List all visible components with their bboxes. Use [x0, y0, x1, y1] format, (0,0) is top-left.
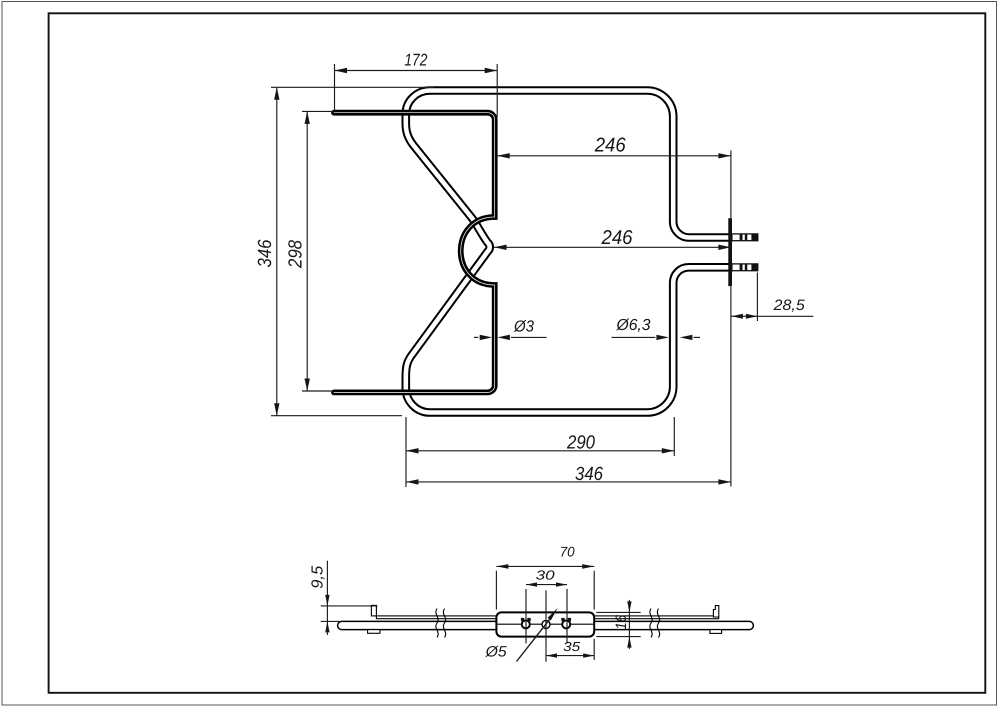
dim 16 [596, 600, 640, 649]
svg-text:346: 346 [575, 464, 603, 485]
svg-text:246: 246 [601, 227, 634, 249]
svg-text:298: 298 [286, 240, 307, 269]
label diameter 6,3 [612, 317, 701, 340]
dim 246 lower [494, 227, 731, 250]
support rod (3mm) [334, 113, 495, 393]
svg-text:28,5: 28,5 [773, 297, 806, 314]
svg-text:172: 172 [404, 51, 427, 70]
svg-text:246: 246 [594, 134, 627, 156]
dim 298 [286, 111, 334, 391]
block centerline [498, 623, 594, 625]
dim 172 [335, 51, 498, 118]
svg-text:290: 290 [566, 432, 595, 453]
dim 30 [526, 568, 567, 644]
right tab [710, 606, 722, 634]
hole 3 [562, 620, 570, 628]
svg-text:30: 30 [536, 568, 556, 583]
heating element tube outline (6.3mm) [406, 91, 731, 413]
label diameter 3 [474, 318, 547, 340]
dim 290 [406, 417, 674, 487]
dim 28,5 [731, 273, 813, 322]
terminal pin 2 [732, 264, 758, 272]
hole 1 [522, 620, 530, 628]
break marks left [436, 609, 446, 638]
terminal pin 1 [732, 234, 758, 242]
dim 246 upper [497, 134, 731, 218]
svg-text:70: 70 [560, 543, 575, 559]
dim 70 [496, 543, 594, 609]
side view upper strip [376, 616, 718, 619]
dim 9,5 [310, 561, 378, 635]
hole 2 [542, 620, 550, 628]
break marks right [650, 609, 660, 638]
label diameter 5 with leader [485, 608, 558, 662]
svg-text:9,5: 9,5 [310, 566, 327, 589]
svg-text:Ø3: Ø3 [513, 318, 534, 335]
svg-text:16: 16 [613, 614, 630, 630]
svg-text:Ø5: Ø5 [485, 643, 508, 660]
dim 346 left [255, 87, 434, 415]
bracket block [496, 612, 594, 636]
side view main bar [338, 621, 754, 629]
mounting plate [728, 218, 732, 286]
dim 346 bottom [406, 287, 731, 487]
svg-text:Ø6,3: Ø6,3 [616, 317, 651, 334]
left tab [368, 605, 380, 633]
svg-text:35: 35 [563, 639, 581, 654]
svg-text:346: 346 [255, 239, 276, 267]
dim 35 [546, 590, 594, 661]
